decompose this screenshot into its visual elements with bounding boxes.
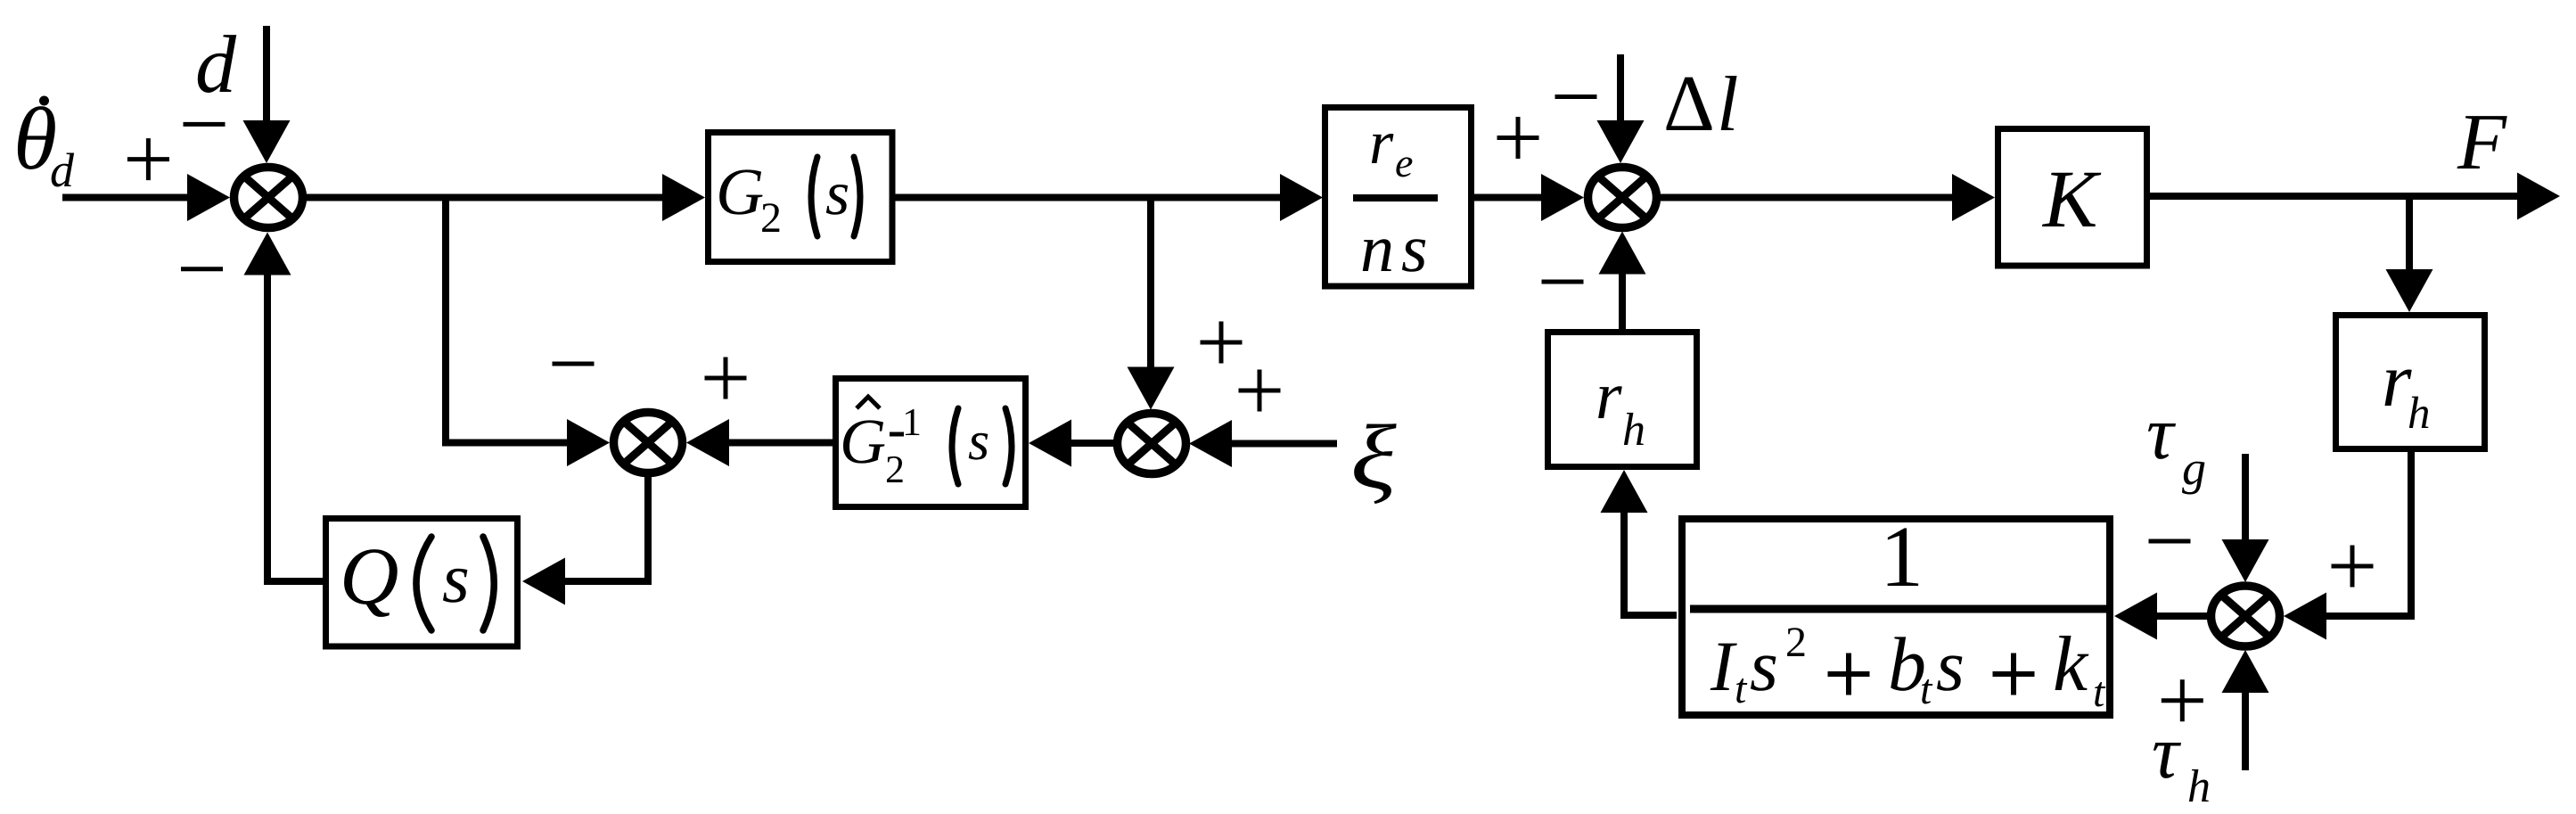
wire branch at node C down to rh right — [2406, 196, 2413, 270]
wire Delta-l input vertical — [1617, 54, 1624, 122]
svg-text:τ: τ — [2146, 391, 2176, 475]
block Ghat2^-1(s) — [836, 379, 1026, 507]
wire d input vertical — [263, 26, 270, 122]
summing junction S3 — [614, 413, 683, 473]
wire S3 down to Q(s) — [563, 477, 648, 582]
svg-text:h: h — [2408, 389, 2431, 439]
wire K to F output — [2150, 193, 2517, 200]
block K — [1998, 129, 2147, 267]
svg-text:t: t — [2093, 669, 2106, 716]
arrowhead into G2(s) — [662, 174, 705, 221]
arrowhead into S4 top — [1128, 367, 1175, 410]
arrowhead into S4 right — [1189, 420, 1232, 467]
wire xi input — [1230, 440, 1337, 448]
wire re/ns to S2 — [1473, 194, 1543, 201]
svg-text:n: n — [1360, 211, 1394, 286]
svg-text:s: s — [825, 160, 849, 228]
node tau_g label — [2146, 391, 2206, 495]
summing junction S2 — [1588, 168, 1657, 228]
sign minus S3 left input — [553, 362, 595, 366]
node tau_h label — [2152, 711, 2211, 812]
sign plus S5 bottom input — [2162, 679, 2203, 721]
arrowhead into re/ns block — [1280, 174, 1323, 221]
block 1/(It s2 + bt s + kt) — [1682, 509, 2110, 716]
arrowhead into K — [1952, 174, 1995, 221]
svg-text:G: G — [716, 155, 764, 229]
svg-text:ξ: ξ — [1350, 407, 1397, 508]
svg-text:τ: τ — [2152, 711, 2181, 794]
sign plus S4 top input — [1201, 322, 1243, 364]
arrowhead d into S1 top — [243, 120, 291, 163]
wire Q(s) to S1 bottom — [267, 273, 325, 581]
arrowhead into rh left bottom — [1601, 470, 1648, 513]
wire branch at node A down to S3 — [446, 198, 570, 443]
wire rh right to S5 — [2325, 450, 2411, 616]
node d disturbance label — [195, 19, 237, 110]
arrowhead into S5 right — [2284, 593, 2326, 640]
arrowhead into Q(s) right — [522, 558, 565, 605]
arrowhead into S2 left — [1541, 174, 1584, 221]
svg-text:s: s — [442, 540, 470, 618]
svg-text:d: d — [195, 19, 237, 110]
arrowhead into S2 bottom — [1599, 232, 1646, 275]
summing junction S5 — [2211, 586, 2280, 646]
block G2(s) — [709, 133, 893, 262]
wire TF block to rh left — [1624, 511, 1677, 615]
arrowhead into S3 right — [686, 419, 729, 466]
node Delta-l label — [1663, 60, 1739, 148]
svg-text:k: k — [2053, 621, 2089, 708]
arrowhead tau_g into S5 top — [2222, 539, 2269, 582]
svg-text:l: l — [1717, 62, 1739, 148]
sign minus S1 bottom input — [181, 267, 223, 271]
wire Ghat inverse to S3 — [727, 440, 833, 447]
svg-text:1: 1 — [1880, 509, 1924, 605]
arrowhead into summing junction S1 left — [187, 174, 230, 221]
svg-text:e: e — [1395, 140, 1413, 185]
arrowhead into 1/(It s2+bt s+kt) right — [2114, 593, 2157, 640]
sign plus S1 left input — [127, 138, 169, 180]
svg-text:2: 2 — [1785, 619, 1807, 666]
wire input theta_dot_d — [62, 194, 189, 201]
arrowhead into Ghat inverse right — [1029, 420, 1071, 467]
svg-text:r: r — [1596, 358, 1622, 433]
sign minus S2 top input — [1555, 95, 1597, 99]
svg-text:h: h — [2187, 761, 2211, 812]
wire S1 to G2(s) — [306, 194, 664, 201]
summing junction S1 — [234, 168, 303, 228]
svg-text:Q: Q — [340, 530, 399, 621]
block Q(s) — [326, 519, 518, 647]
sign plus S4 right input — [1239, 370, 1281, 412]
svg-text:t: t — [1735, 665, 1748, 712]
svg-text:1: 1 — [902, 400, 922, 444]
svg-text:s: s — [1401, 211, 1428, 286]
arrowhead into rh right top — [2386, 269, 2433, 312]
svg-text:2: 2 — [885, 448, 905, 491]
arrowhead Delta-l into S2 top — [1597, 120, 1645, 163]
arrowhead tau_h into S5 bottom — [2222, 650, 2269, 693]
arrowhead F output — [2517, 173, 2560, 220]
wire rh to S2 bottom — [1619, 273, 1626, 331]
svg-text:I: I — [1710, 628, 1737, 706]
wire branch at node B down to S4 — [1147, 198, 1154, 369]
sign minus S2 bottom input — [1542, 280, 1584, 284]
sign minus S5 top input — [2149, 539, 2191, 544]
block rh left — [1548, 333, 1697, 467]
summing junction S4 — [1118, 414, 1186, 474]
node input theta_dot_d label — [13, 89, 75, 197]
wire G2(s) to re/ns — [895, 194, 1283, 201]
svg-text:Δ: Δ — [1663, 60, 1715, 148]
svg-text:s: s — [1750, 625, 1778, 706]
node F output label — [2457, 98, 2507, 186]
sign plus S5 right input — [2332, 546, 2374, 588]
sign minus S1 top input — [184, 122, 226, 127]
wire tau_g input vertical — [2242, 454, 2249, 541]
wire tau_h input vertical — [2242, 693, 2249, 770]
wire S4 to Ghat inverse block — [1070, 440, 1113, 447]
svg-text:t: t — [1920, 666, 1933, 713]
svg-text:K: K — [2041, 153, 2102, 244]
arrowhead into S1 bottom — [244, 233, 291, 275]
sign plus S3 right input — [705, 358, 747, 399]
svg-text:s: s — [1936, 625, 1965, 706]
svg-text:G: G — [840, 406, 886, 477]
block rh right — [2336, 316, 2485, 449]
block re/ns — [1325, 108, 1472, 287]
sign plus S2 left input — [1497, 117, 1539, 159]
wire S2 to K — [1661, 194, 1954, 201]
svg-text:g: g — [2182, 441, 2206, 495]
svg-text:s: s — [968, 411, 989, 472]
svg-text:r: r — [1369, 109, 1394, 177]
wire S5 to 1/(It s2+bt s+kt) block — [2157, 613, 2207, 620]
svg-text:2: 2 — [760, 194, 782, 242]
arrowhead into S3 left — [567, 419, 610, 466]
svg-text:F: F — [2457, 98, 2507, 186]
svg-text:d: d — [50, 144, 75, 197]
node xi input label — [1350, 407, 1397, 508]
svg-text:h: h — [1622, 405, 1645, 456]
